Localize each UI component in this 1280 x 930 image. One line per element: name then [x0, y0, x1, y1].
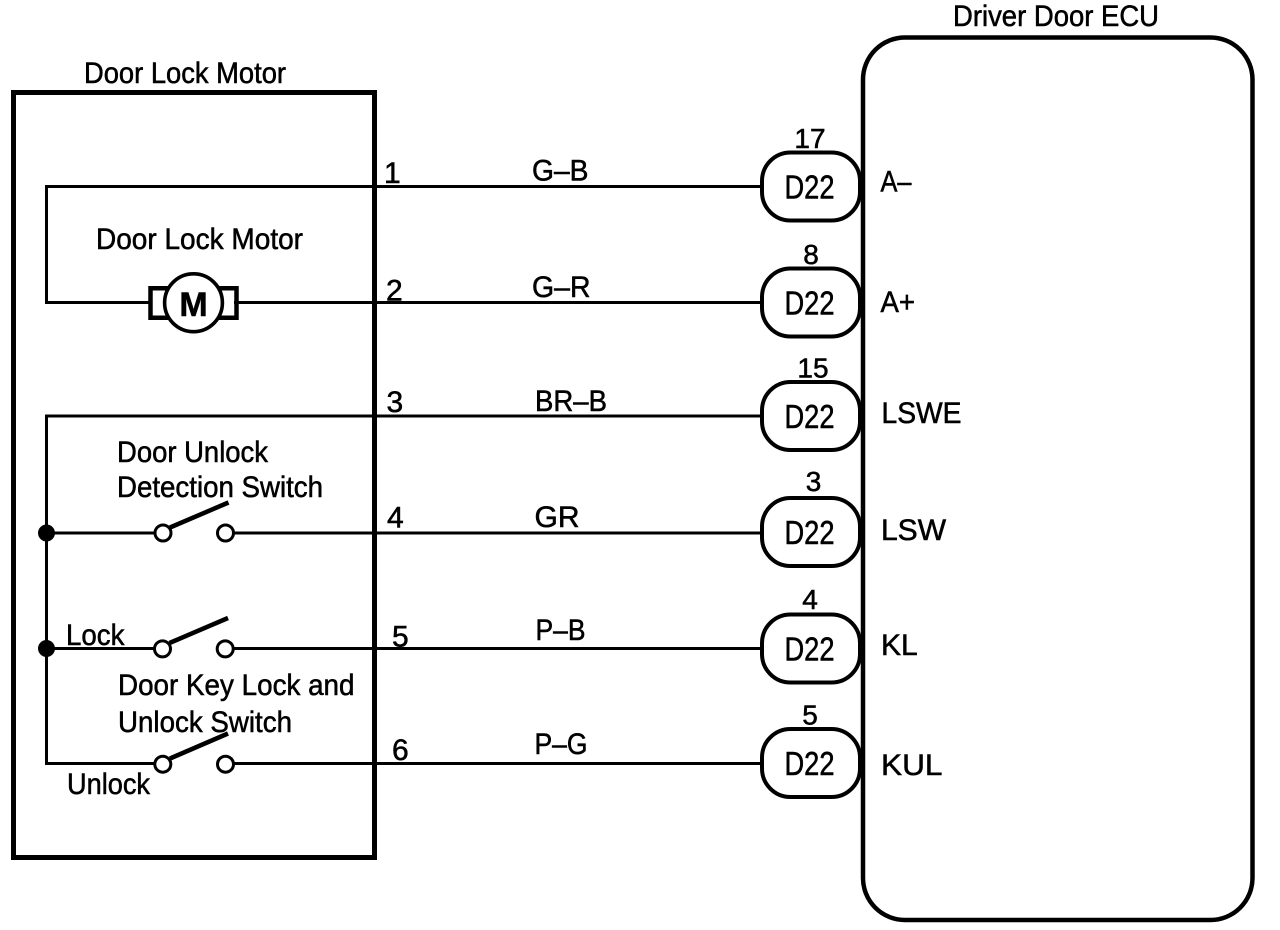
svg-text:2: 2 — [386, 275, 403, 308]
connector D22 pin 15 oval — [762, 382, 860, 450]
svg-text:KUL: KUL — [881, 749, 943, 782]
svg-text:5: 5 — [802, 700, 818, 731]
svg-text:6: 6 — [392, 734, 409, 767]
svg-text:G–B: G–B — [532, 155, 589, 188]
svg-text:3: 3 — [387, 386, 404, 419]
switch S2 lever — [170, 618, 229, 643]
svg-text:A–: A– — [881, 166, 912, 199]
svg-text:15: 15 — [797, 353, 828, 384]
wire: switch loop left vertical — [45, 415, 48, 764]
svg-text:Driver Door ECU: Driver Door ECU — [953, 0, 1159, 33]
svg-text:Unlock Switch: Unlock Switch — [118, 706, 292, 739]
svg-text:Door Lock Motor: Door Lock Motor — [96, 223, 303, 256]
switch S3 contact left — [155, 756, 171, 772]
svg-text:17: 17 — [794, 123, 825, 154]
motor M1 left brush — [151, 288, 177, 318]
wire 2 (G-R) left segment to motor — [45, 301, 152, 304]
svg-text:D22: D22 — [785, 745, 835, 782]
switch S2 contact left — [155, 641, 171, 657]
node: junction dot wire 5 — [38, 640, 55, 657]
Driver Door ECU box U1 — [863, 38, 1253, 921]
svg-text:LSWE: LSWE — [882, 397, 962, 430]
svg-text:G–R: G–R — [532, 271, 591, 304]
svg-text:D22: D22 — [785, 398, 835, 435]
wire: motor loop left vertical — [45, 185, 48, 303]
svg-text:D22: D22 — [785, 169, 835, 206]
svg-text:D22: D22 — [785, 631, 835, 668]
svg-text:4: 4 — [387, 502, 404, 535]
wire 4 (GR) right segment switch S1 to pin 3 — [234, 532, 763, 535]
svg-text:Door Key Lock and: Door Key Lock and — [118, 669, 355, 702]
svg-text:D22: D22 — [785, 514, 835, 551]
wire 1 (G-B) from motor loop to pin 17 — [47, 185, 764, 188]
svg-text:M: M — [179, 286, 207, 324]
svg-text:8: 8 — [803, 239, 819, 270]
motor M1 body — [165, 274, 223, 332]
svg-text:A+: A+ — [881, 286, 916, 319]
switch S2 contact right — [217, 641, 233, 657]
svg-text:Lock: Lock — [66, 619, 125, 652]
svg-text:Door Lock Motor: Door Lock Motor — [84, 57, 286, 90]
svg-text:4: 4 — [802, 584, 818, 615]
svg-text:P–B: P–B — [536, 614, 586, 647]
svg-text:Door Unlock: Door Unlock — [117, 436, 269, 469]
Door Lock Motor component box — [14, 93, 375, 858]
switch S1 contact right — [218, 525, 234, 541]
wire 6 (P-G) right segment switch S3 to pin 5 — [234, 762, 763, 765]
connector D22 pin 4 oval — [762, 615, 860, 683]
svg-text:Detection Switch: Detection Switch — [117, 471, 323, 504]
svg-text:KL: KL — [881, 629, 918, 662]
wire 5 (P-B) left segment to switch S2 — [45, 647, 155, 650]
svg-text:LSW: LSW — [881, 514, 947, 547]
wire 5 (P-B) right segment switch S2 to pin 4 — [234, 647, 763, 650]
svg-text:3: 3 — [806, 466, 822, 497]
wire 6 (P-G) left segment to switch S3 — [45, 762, 155, 765]
svg-text:P–G: P–G — [535, 728, 588, 761]
wire 3 (BR-B) switch loop top to pin 15 — [47, 415, 764, 418]
switch S3 lever — [170, 734, 228, 759]
svg-text:Unlock: Unlock — [67, 768, 151, 801]
svg-text:5: 5 — [392, 621, 409, 654]
motor M1 right brush — [211, 288, 237, 318]
svg-text:D22: D22 — [785, 285, 835, 322]
switch S1 contact left — [155, 525, 171, 541]
connector D22 pin 8 oval — [762, 269, 860, 337]
connector D22 pin 5 oval — [762, 729, 860, 797]
svg-text:GR: GR — [535, 501, 580, 534]
svg-text:BR–B: BR–B — [535, 385, 607, 418]
svg-text:1: 1 — [384, 157, 401, 190]
wire 2 (G-R) right segment motor to pin 8 — [234, 301, 763, 304]
wire 4 (GR) left segment to switch S1 — [45, 532, 155, 535]
connector D22 pin 17 oval — [762, 153, 860, 221]
switch S3 contact right — [218, 756, 234, 772]
connector D22 pin 3 oval — [762, 498, 860, 566]
node: junction dot wire 4 — [38, 525, 55, 542]
switch S1 lever — [170, 503, 229, 528]
